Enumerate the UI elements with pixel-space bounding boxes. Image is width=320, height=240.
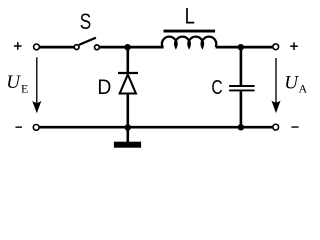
terminal bottom-left bbox=[33, 125, 39, 131]
svg-text:U: U bbox=[284, 73, 299, 94]
plus sign left input bbox=[14, 42, 22, 50]
svg-text:E: E bbox=[21, 82, 28, 96]
wire inductor to output bbox=[216, 46, 273, 49]
diode D bbox=[118, 47, 138, 127]
svg-text:D: D bbox=[97, 75, 111, 99]
wire switch to inductor bbox=[100, 46, 164, 49]
inductor L coil bbox=[162, 37, 216, 47]
bottom rail wire bbox=[40, 126, 273, 129]
terminal bottom-right bbox=[273, 124, 279, 130]
svg-text:S: S bbox=[80, 10, 91, 35]
svg-text:A: A bbox=[299, 82, 308, 96]
svg-text:U: U bbox=[6, 72, 21, 93]
capacitor C bbox=[229, 47, 255, 127]
plus sign right output bbox=[290, 42, 298, 50]
terminal top-right bbox=[273, 44, 279, 50]
terminal top-left bbox=[34, 44, 40, 50]
inductor L core bar bbox=[164, 30, 216, 33]
svg-text:C: C bbox=[211, 76, 222, 99]
minus sign left input bbox=[16, 126, 23, 128]
minus sign right output bbox=[292, 126, 299, 128]
node switch/diode junction bbox=[124, 44, 131, 51]
wire terminal to switch bbox=[40, 46, 74, 49]
node capacitor bottom junction bbox=[238, 124, 244, 130]
svg-text:L: L bbox=[185, 4, 195, 29]
voltage arrow U_E bbox=[32, 57, 41, 113]
node inductor/capacitor junction bbox=[238, 44, 245, 51]
node diode/ground junction bbox=[125, 124, 132, 130]
switch S bbox=[74, 38, 99, 50]
voltage arrow U_A bbox=[271, 58, 280, 113]
ground bbox=[114, 127, 141, 148]
